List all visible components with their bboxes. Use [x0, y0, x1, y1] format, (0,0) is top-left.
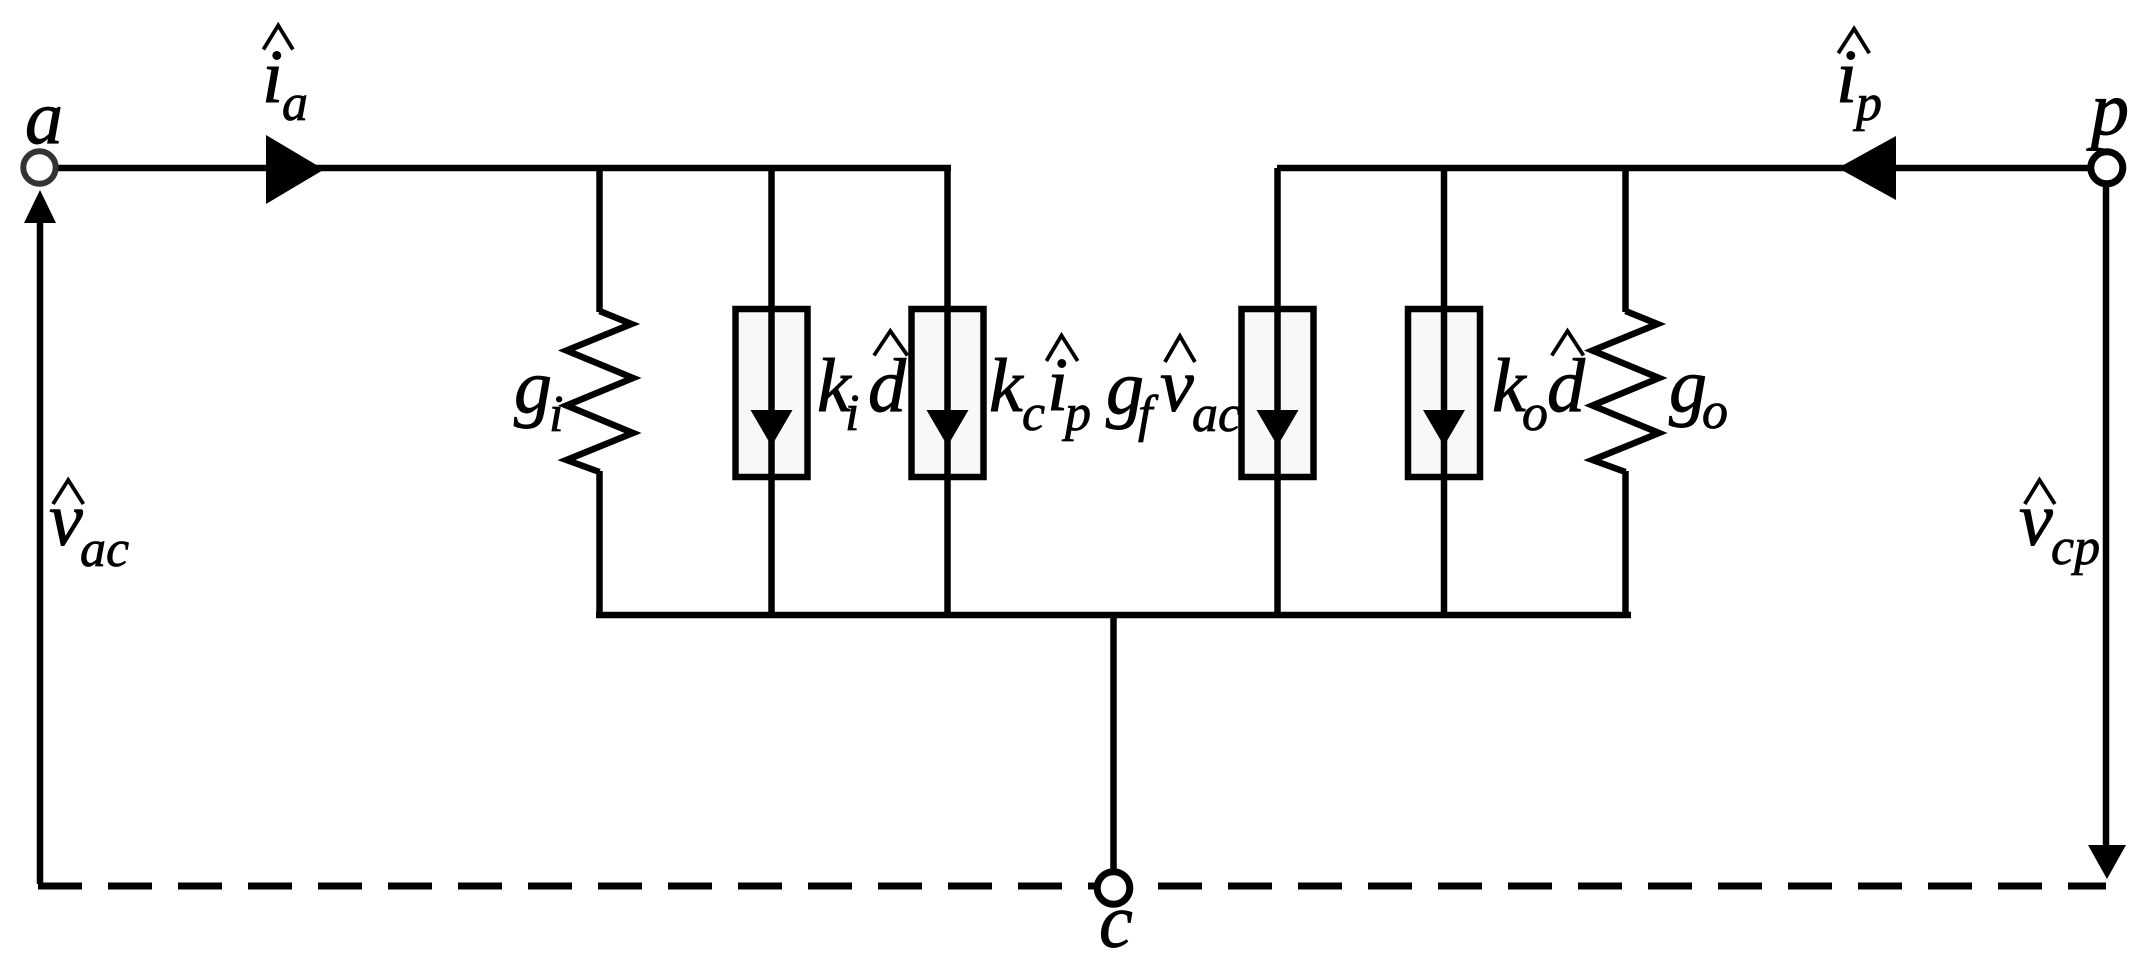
- svg-text:k: k: [989, 344, 1024, 428]
- current direction arrow i_p on top-right rail: [1838, 136, 1896, 200]
- svg-text:i: i: [1836, 35, 1857, 119]
- label i_a : hat: [263, 25, 293, 49]
- label g_f v_ac : hat over v: [1165, 336, 1195, 362]
- svg-text:f: f: [1138, 386, 1159, 443]
- current source U3 box (g_f v_ac): [1242, 309, 1314, 477]
- svg-text:p: p: [2086, 67, 2129, 151]
- current source U1 box (k_i d): [736, 309, 808, 477]
- current source U2 arrow: [944, 309, 951, 477]
- wire: branch 6 top lead (g_o): [1622, 168, 1629, 312]
- svg-text:c: c: [1099, 880, 1133, 964]
- label k_o d : hat over d: [1552, 331, 1584, 356]
- svg-text:ac: ac: [80, 521, 129, 578]
- svg-text:d: d: [1547, 344, 1586, 428]
- svg-text:g: g: [514, 345, 552, 429]
- wire: branch 1 bottom lead (g_i): [596, 471, 603, 618]
- svg-text:o: o: [1522, 385, 1548, 442]
- node c terminal circle: [1097, 872, 1130, 905]
- svg-text:c: c: [1022, 385, 1045, 442]
- wire: branch 3 vertical (k_c i_p source): [944, 168, 951, 615]
- node a terminal circle: [23, 151, 55, 183]
- svg-text:i: i: [262, 35, 283, 119]
- current source U2 box (k_c i_p): [912, 309, 984, 477]
- svg-text:d: d: [868, 344, 907, 428]
- label k_i d : hat over d: [874, 331, 908, 356]
- voltage arrow head v_cp (down) on right rail: [2088, 845, 2126, 879]
- resistor g_i zigzag: [567, 311, 634, 472]
- wire: top-right rail from right branch group to node p: [1277, 165, 2091, 172]
- wire: branch 6 bottom lead (g_o): [1622, 471, 1629, 618]
- wire: bottom bus joining all branches: [596, 612, 1631, 619]
- svg-text:v: v: [2019, 478, 2053, 562]
- wire: top-left rail from node a to left branch group: [55, 165, 951, 172]
- svg-text:v: v: [49, 478, 83, 562]
- voltage arrow head v_ac (up) on left rail: [24, 190, 56, 223]
- current source U3 arrow: [1274, 309, 1281, 477]
- wire: right rail (node p down to arrow at common return): [2103, 185, 2110, 846]
- wire: branch 2 vertical (k_i d source): [768, 168, 775, 615]
- node p terminal circle: [2091, 152, 2123, 184]
- current source U4 arrow: [1441, 309, 1448, 477]
- current source U1 arrow: [768, 309, 775, 477]
- svg-text:i: i: [549, 386, 563, 443]
- label i_p : hat: [1838, 29, 1869, 54]
- wire: center tap from bottom bus down to node c: [1110, 615, 1117, 870]
- label k_c i_p : hat over i: [1046, 336, 1077, 362]
- current source U4 box (k_o d): [1408, 309, 1480, 477]
- svg-text:v: v: [1160, 344, 1194, 428]
- wire: branch 4 vertical (g_f v_ac source): [1274, 168, 1281, 615]
- label v_cp : hat: [2025, 480, 2055, 504]
- svg-text:o: o: [1702, 383, 1728, 440]
- svg-text:p: p: [1061, 385, 1091, 442]
- wire: branch 5 vertical (k_o d source): [1441, 168, 1448, 615]
- current direction arrow i_a on top-left rail: [266, 135, 324, 204]
- wire: dashed common return line through node c: [38, 883, 2106, 890]
- svg-text:p: p: [1852, 75, 1882, 132]
- svg-text:ac: ac: [1192, 386, 1241, 443]
- wire: branch 1 top lead (g_i): [596, 168, 603, 312]
- wire: left rail (node a down to common dashed return): [37, 221, 44, 884]
- svg-text:cp: cp: [2051, 519, 2100, 576]
- svg-text:i: i: [845, 385, 859, 442]
- resistor g_o zigzag: [1593, 311, 1660, 472]
- svg-text:a: a: [282, 75, 308, 132]
- svg-text:a: a: [25, 76, 63, 160]
- label v_ac : hat: [53, 480, 83, 504]
